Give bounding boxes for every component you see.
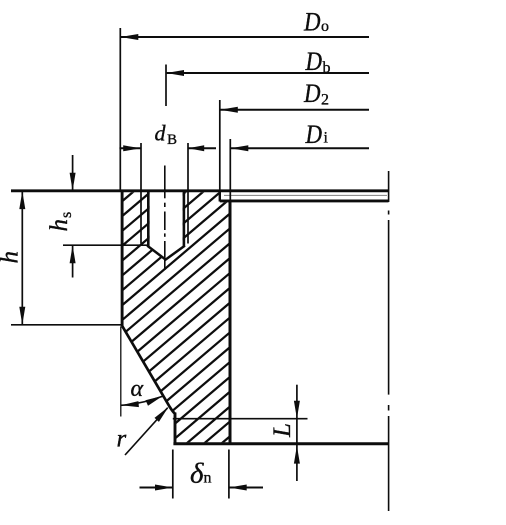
svg-text:δ: δ (190, 458, 204, 490)
svg-text:s: s (58, 212, 75, 218)
svg-text:D: D (303, 79, 321, 108)
svg-text:2: 2 (321, 92, 329, 109)
svg-text:i: i (324, 130, 329, 147)
svg-text:L: L (269, 423, 296, 438)
svg-text:o: o (321, 18, 329, 35)
svg-text:α: α (131, 376, 144, 402)
svg-text:D: D (303, 8, 321, 37)
svg-text:n: n (204, 470, 212, 487)
svg-text:B: B (167, 132, 177, 148)
svg-text:h: h (46, 219, 73, 232)
svg-text:h: h (0, 251, 24, 264)
svg-text:D: D (305, 120, 323, 149)
svg-text:b: b (323, 60, 331, 77)
svg-text:D: D (305, 47, 323, 76)
svg-text:r: r (117, 426, 127, 453)
svg-text:d: d (155, 121, 167, 146)
